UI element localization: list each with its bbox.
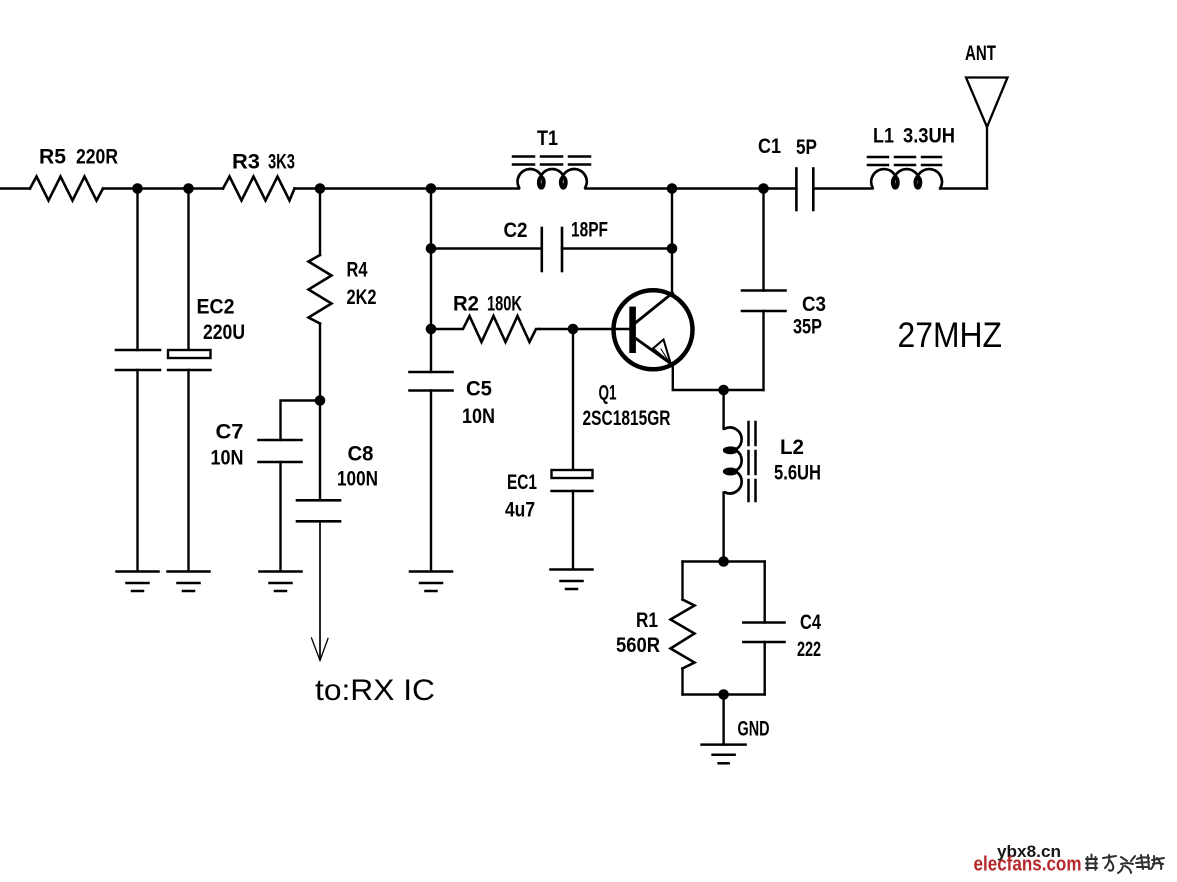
capacitor C5 (410, 372, 453, 391)
svg-text:18PF: 18PF (571, 219, 608, 242)
capacitor C1 (796, 169, 813, 211)
node junction dot (426, 243, 437, 254)
node junction dot (315, 395, 326, 406)
wire drop to C2 node (430, 189, 432, 330)
wire tank bottom rail (683, 693, 765, 695)
svg-text:elecfans.com: elecfans.com (974, 854, 1082, 876)
svg-text:C8: C8 (348, 443, 374, 466)
node junction dot (426, 183, 437, 194)
svg-text:560R: 560R (616, 634, 660, 657)
node junction dot R2 left (426, 324, 437, 335)
wire EC1 to ground (572, 491, 574, 569)
node junction dot (183, 183, 194, 194)
wire collector drop (671, 189, 673, 294)
capacitor (bypass, unlabeled) (116, 350, 160, 370)
svg-text:3K3: 3K3 (268, 151, 295, 174)
svg-text:10N: 10N (211, 447, 244, 470)
wire C8 down to arrow (319, 521, 321, 658)
ground (551, 570, 593, 590)
svg-text:C4: C4 (800, 611, 821, 634)
svg-text:R5: R5 (39, 146, 66, 169)
svg-text:2SC1815GR: 2SC1815GR (583, 407, 671, 430)
capacitor EC1 electrolytic (552, 470, 593, 491)
wire R1 branch top (681, 562, 683, 600)
ground (117, 572, 159, 592)
wire drop to R4 (319, 189, 321, 256)
node junction dot (667, 243, 678, 254)
wire drop to bypass cap (136, 189, 138, 351)
svg-text:10N: 10N (462, 405, 495, 428)
arrow head to RX IC (312, 638, 329, 661)
wire rail R3 to T1 (295, 187, 520, 189)
capacitor C2 (542, 228, 562, 271)
ground GND (702, 745, 746, 764)
wire R2 to base (539, 328, 629, 330)
node junction dot base (568, 324, 579, 335)
svg-text:EC1: EC1 (507, 471, 537, 494)
inductor T1 core dashes (513, 157, 591, 165)
wire emitter node to L2 (722, 390, 724, 429)
antenna ANT (966, 78, 1008, 189)
svg-text:2K2: 2K2 (347, 286, 377, 309)
wire C4 to bottom rail (764, 642, 766, 695)
svg-text:R4: R4 (347, 259, 368, 282)
ground (260, 572, 302, 592)
wire C3 to emitter run (762, 311, 764, 390)
svg-text:C2: C2 (504, 219, 528, 242)
svg-text:R1: R1 (636, 609, 658, 632)
ground (168, 572, 210, 592)
wire R4 to node (319, 324, 321, 401)
node junction dot collector (667, 183, 678, 194)
wire L1 to antenna (940, 187, 987, 189)
wire to GND (722, 695, 724, 745)
wire cap to ground (136, 370, 138, 571)
svg-text:Q1: Q1 (599, 382, 617, 405)
wire drop to EC1 (572, 329, 574, 470)
wire L2 to tank (722, 493, 724, 562)
node junction dot C3 top (758, 183, 769, 194)
resistor R1 (671, 600, 695, 669)
node junction dot tank top (718, 556, 729, 567)
svg-text:C3: C3 (802, 293, 826, 316)
wire C5 to ground (430, 391, 432, 572)
wire emitter run (673, 366, 764, 390)
inductor T1 coil (518, 169, 587, 189)
wire jog to C7 (281, 401, 321, 441)
node junction dot (315, 183, 326, 194)
node junction dot (132, 183, 143, 194)
wire C2 right (562, 247, 672, 249)
resistor R3 (223, 177, 295, 201)
svg-text:35P: 35P (793, 316, 822, 339)
wire main rail left entry (0, 187, 30, 189)
resistor R5 (30, 177, 103, 201)
svg-text:C5: C5 (466, 378, 492, 401)
svg-text:5.6UH: 5.6UH (774, 462, 821, 485)
svg-text:T1: T1 (537, 127, 558, 150)
wire drop to EC2 (187, 189, 189, 351)
wire C7 to ground (279, 462, 281, 571)
svg-text:27MHZ: 27MHZ (898, 316, 1003, 355)
svg-text:220R: 220R (76, 146, 118, 169)
svg-text:222: 222 (797, 638, 821, 661)
capacitor C4 (743, 623, 784, 643)
svg-text:L1: L1 (873, 125, 894, 148)
svg-text:GND: GND (738, 718, 770, 741)
capacitor EC2 electrolytic (168, 350, 211, 370)
inductor L1 core dashes (868, 157, 941, 165)
wire rail R5 to R3 (103, 187, 223, 189)
svg-text:R2: R2 (453, 293, 479, 316)
capacitor C7 (259, 440, 302, 462)
wire node to C8 (319, 401, 321, 501)
wire C4 branch top (764, 562, 766, 623)
svg-text:R3: R3 (232, 151, 260, 174)
watermark chinese characters (1086, 855, 1164, 874)
node junction dot tank bottom (718, 689, 729, 700)
svg-text:100N: 100N (337, 468, 378, 491)
svg-text:4u7: 4u7 (505, 499, 535, 522)
inductor L2 core dashes (749, 422, 756, 501)
inductor L2 coil (724, 427, 742, 493)
svg-text:C1: C1 (758, 135, 781, 158)
wire EC2 to ground (187, 370, 189, 571)
inductor L1 coil (871, 169, 942, 189)
wire C1 to L1 (813, 187, 872, 189)
wire T1 to C1 (586, 187, 797, 189)
ground (410, 572, 452, 592)
svg-text:L2: L2 (780, 436, 804, 459)
svg-text:220U: 220U (203, 321, 245, 344)
capacitor C3 drop wire (762, 189, 764, 291)
svg-text:5P: 5P (796, 136, 817, 159)
svg-text:ANT: ANT (965, 42, 996, 65)
transistor Q1 (614, 290, 693, 369)
wire tank top rail (683, 560, 765, 562)
svg-text:3.3UH: 3.3UH (903, 125, 955, 148)
wire C2 left (431, 247, 542, 249)
svg-text:C7: C7 (216, 421, 244, 444)
wire R1 to bottom rail (681, 669, 683, 695)
capacitor C8 (297, 500, 340, 521)
svg-text:to:RX IC: to:RX IC (315, 674, 435, 707)
svg-text:180K: 180K (487, 293, 522, 316)
wire drop to C5 (430, 329, 432, 372)
resistor R2 (431, 316, 539, 342)
capacitor C3 (742, 291, 786, 312)
node junction dot emitter (718, 385, 729, 396)
resistor R4 (309, 255, 332, 324)
svg-text:EC2: EC2 (197, 296, 235, 319)
